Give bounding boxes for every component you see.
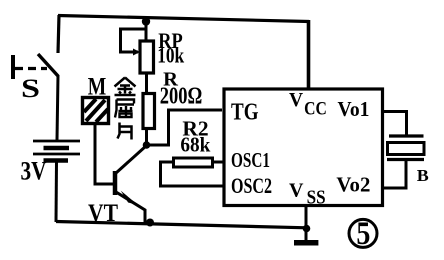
svg-text:5: 5	[356, 216, 370, 252]
wire bottom bus	[56, 222, 307, 228]
label 属	[115, 100, 134, 118]
figure number circled 5	[349, 216, 377, 252]
wire VCC to top bus	[307, 20, 311, 89]
svg-text:B: B	[417, 166, 429, 185]
wire top bus to RP	[145, 20, 148, 41]
junction dot top bus at RP	[142, 17, 150, 25]
piezo sounder B ceramic body	[388, 143, 425, 155]
wire R2 right to OSC1 pin	[212, 161, 224, 164]
battery B1 plate short thick	[44, 146, 70, 151]
svg-text:VT: VT	[88, 200, 118, 227]
svg-text:OSC1: OSC1	[231, 148, 270, 172]
ground symbol	[294, 240, 318, 246]
wire top bus	[58, 16, 309, 22]
svg-text:68k: 68k	[180, 133, 210, 157]
metal plate M hatched box	[83, 98, 109, 124]
wire battery to bottom bus	[55, 162, 59, 222]
wire M plate to transistor base	[95, 125, 113, 184]
wire R to junction	[145, 130, 148, 146]
battery B1 plate long lower	[33, 153, 80, 156]
wire switch to battery	[57, 75, 58, 140]
resistor R2 body	[174, 158, 213, 167]
battery B1 plate long top	[33, 140, 80, 143]
svg-text:OSC2: OSC2	[231, 173, 272, 198]
junction node R bottom	[143, 141, 151, 149]
svg-text:CC: CC	[304, 98, 327, 119]
svg-text:V: V	[289, 179, 304, 201]
label VCC	[289, 90, 327, 120]
label Vo1	[338, 97, 370, 121]
potentiometer RP wiper arrowhead	[133, 49, 140, 56]
svg-text:3V: 3V	[21, 156, 47, 186]
junction VSS bottom bus	[303, 225, 311, 233]
junction emitter to bottom bus	[146, 219, 154, 227]
piezo sounder B top plate	[389, 134, 424, 137]
label 片	[118, 123, 132, 140]
switch S fixed contact bar	[11, 55, 15, 79]
IC U1 box	[224, 89, 383, 206]
wire left vertical from top bus to switch	[58, 15, 59, 53]
piezo sounder B bottom plate	[387, 158, 424, 161]
wire RP to R	[145, 73, 148, 92]
svg-text:SS: SS	[307, 188, 326, 209]
svg-text:TG: TG	[231, 99, 259, 125]
label Vo2	[336, 173, 370, 197]
switch S blade	[38, 54, 58, 76]
resistor R body	[143, 94, 155, 129]
label 金 (metal)	[115, 78, 136, 96]
switch S actuator dashed link	[15, 67, 47, 70]
wire piezo to Vo2	[382, 160, 406, 188]
wire Vo1 to piezo	[382, 112, 407, 136]
svg-text:S: S	[21, 74, 40, 103]
transistor VT collector	[116, 146, 146, 173]
wire VSS to ground	[305, 205, 308, 241]
transistor VT emitter with arrow	[116, 191, 145, 224]
wire junction to TG riser	[147, 110, 223, 145]
potentiometer RP wiper loop	[121, 29, 146, 52]
battery B1 plate short thick lower	[44, 158, 69, 163]
svg-text:Vo1: Vo1	[338, 97, 370, 121]
potentiometer RP body	[140, 41, 154, 73]
label VSS	[289, 179, 326, 208]
svg-text:10k: 10k	[157, 43, 185, 68]
svg-text:Vo2: Vo2	[336, 173, 370, 197]
wire R2 left to OSC2 pin	[161, 162, 225, 186]
svg-text:V: V	[289, 90, 303, 111]
svg-text:200Ω: 200Ω	[160, 83, 203, 109]
transistor VT base bar	[113, 171, 118, 195]
